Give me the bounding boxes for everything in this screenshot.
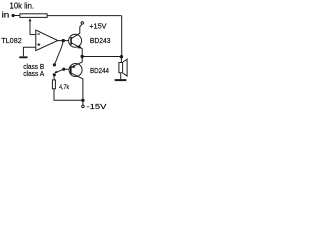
svg-text:BD243: BD243 (90, 38, 111, 45)
wire: R2 to -15V rail (54, 89, 83, 100)
ground (speaker) (115, 79, 127, 81)
node: emitter junction (81, 55, 84, 58)
Q2 emitter arrow (PNP) (72, 65, 76, 68)
Q1 emitter (71, 43, 82, 57)
op-amp U1 triangle (36, 30, 58, 51)
wire: switch common to Q2 base (64, 68, 71, 70)
wire: wiper to op-amp inverting input (30, 34, 36, 36)
resistor R2 body (52, 80, 55, 89)
wire: feedback right vertical (121, 16, 123, 57)
wire: speaker to ground (120, 73, 122, 79)
node: op-amp output junction (62, 39, 65, 42)
node: speaker junction (120, 55, 123, 58)
+15V terminal (81, 22, 84, 25)
svg-text:4,7k: 4,7k (59, 84, 70, 91)
switch lever arrow (57, 69, 64, 72)
wire: contact A to resistor R2 (53, 75, 55, 80)
svg-text:in: in (2, 11, 10, 20)
Q2 emitter (71, 57, 82, 68)
wire: non-inverting input to ground (23, 47, 35, 56)
switch contact A (53, 73, 56, 76)
wire: junction to speaker (120, 57, 122, 62)
svg-text:class A: class A (23, 69, 44, 78)
speaker LS1 (119, 63, 123, 73)
Q1 emitter arrow (77, 45, 82, 49)
wire: junction to -15V terminal (82, 100, 84, 105)
wire: op-amp output (58, 40, 64, 42)
Q2 base bar (70, 66, 72, 74)
op-amp plus symbol (37, 44, 40, 46)
ground (op-amp input) (19, 56, 27, 58)
svg-text:BD244: BD244 (90, 68, 109, 75)
op-amp minus symbol (37, 33, 40, 35)
wire: in to pot (13, 15, 19, 17)
potentiometer R1 body (20, 14, 47, 18)
node: -15V rail junction (81, 99, 84, 102)
node: input dot (12, 14, 15, 17)
Q1 collector (71, 25, 82, 39)
wire: output node to switch contact B (54, 41, 63, 65)
switch contact B (53, 63, 56, 66)
potentiometer wiper arrow (29, 18, 32, 21)
svg-text:-15V: -15V (87, 102, 108, 111)
wire: output to Q1 base (63, 40, 71, 42)
svg-text:+15V: +15V (89, 22, 106, 31)
wire: feedback top rail (48, 15, 122, 17)
svg-text:TL082: TL082 (1, 36, 22, 45)
Q2 collector (71, 73, 83, 100)
-15V terminal (82, 105, 85, 108)
svg-text:10k lin.: 10k lin. (10, 2, 35, 11)
transistor Q2 BD244 circle (69, 64, 82, 77)
wire: output rail (82, 56, 121, 58)
Q1 base bar (70, 37, 72, 45)
switch common node (62, 68, 65, 71)
transistor Q1 BD243 circle (69, 34, 82, 47)
